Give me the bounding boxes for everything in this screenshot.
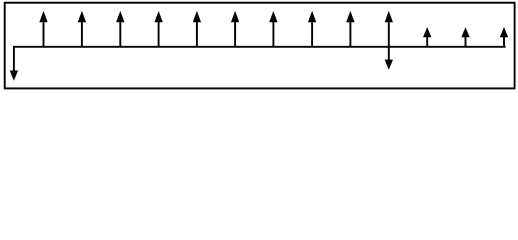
up arrow 12 (short)	[462, 28, 469, 47]
down arrowhead left	[10, 71, 17, 80]
frame border	[5, 3, 515, 89]
up arrow 11 (short)	[424, 28, 431, 47]
up arrow 9	[347, 12, 354, 47]
up arrow 8	[309, 12, 316, 47]
beam line with left downward leg	[14, 47, 506, 71]
down arrow at position 10	[385, 46, 392, 69]
up arrow 1	[40, 12, 47, 47]
up arrow 10	[385, 12, 392, 47]
up arrow 4	[155, 12, 162, 47]
up arrow 6	[232, 12, 239, 47]
up arrow 13 (short)	[500, 28, 507, 47]
up arrow 2	[78, 12, 85, 47]
up arrow 3	[117, 12, 124, 47]
up arrow 5	[193, 12, 200, 47]
up arrow 7	[270, 12, 277, 47]
